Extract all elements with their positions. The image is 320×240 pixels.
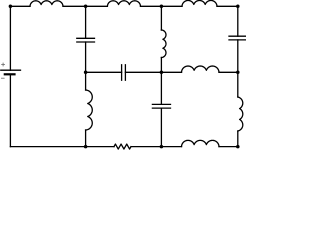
inductor L6: [86, 90, 93, 130]
battery plus sign: [1, 63, 5, 67]
node dot 9: [160, 145, 164, 149]
wire column2: [85, 6, 87, 146]
node dot 10: [236, 145, 240, 149]
wire column4: [237, 6, 239, 146]
wire bottom rail: [10, 146, 237, 148]
node dot 6: [160, 71, 164, 75]
inductor L8: [238, 97, 243, 131]
wire left column: [9, 6, 11, 146]
wire top rail: [10, 5, 237, 7]
inductor L3: [182, 0, 217, 6]
inductor L7: [161, 30, 166, 58]
inductor L4: [182, 140, 220, 146]
capacitor C2: [122, 65, 126, 80]
node dot 1: [9, 5, 13, 9]
capacitor C3: [152, 104, 170, 108]
node dot 5: [84, 71, 88, 75]
node dot 2: [84, 5, 88, 9]
wire column3: [160, 6, 162, 146]
capacitor C1: [77, 38, 95, 42]
node dot 7: [236, 71, 240, 75]
resistor R1: [114, 144, 131, 149]
capacitor C4: [229, 36, 247, 40]
node dot 3: [160, 5, 164, 9]
node dot 4: [236, 5, 240, 9]
battery minus sign: [1, 77, 5, 79]
inductor L1: [30, 1, 63, 7]
inductor L5: [182, 66, 220, 72]
battery B1 long plate: [1, 69, 21, 71]
inductor L2: [107, 1, 140, 7]
battery B1 short plate: [4, 73, 16, 75]
wire middle row: [86, 71, 238, 73]
node dot 8: [84, 145, 88, 149]
